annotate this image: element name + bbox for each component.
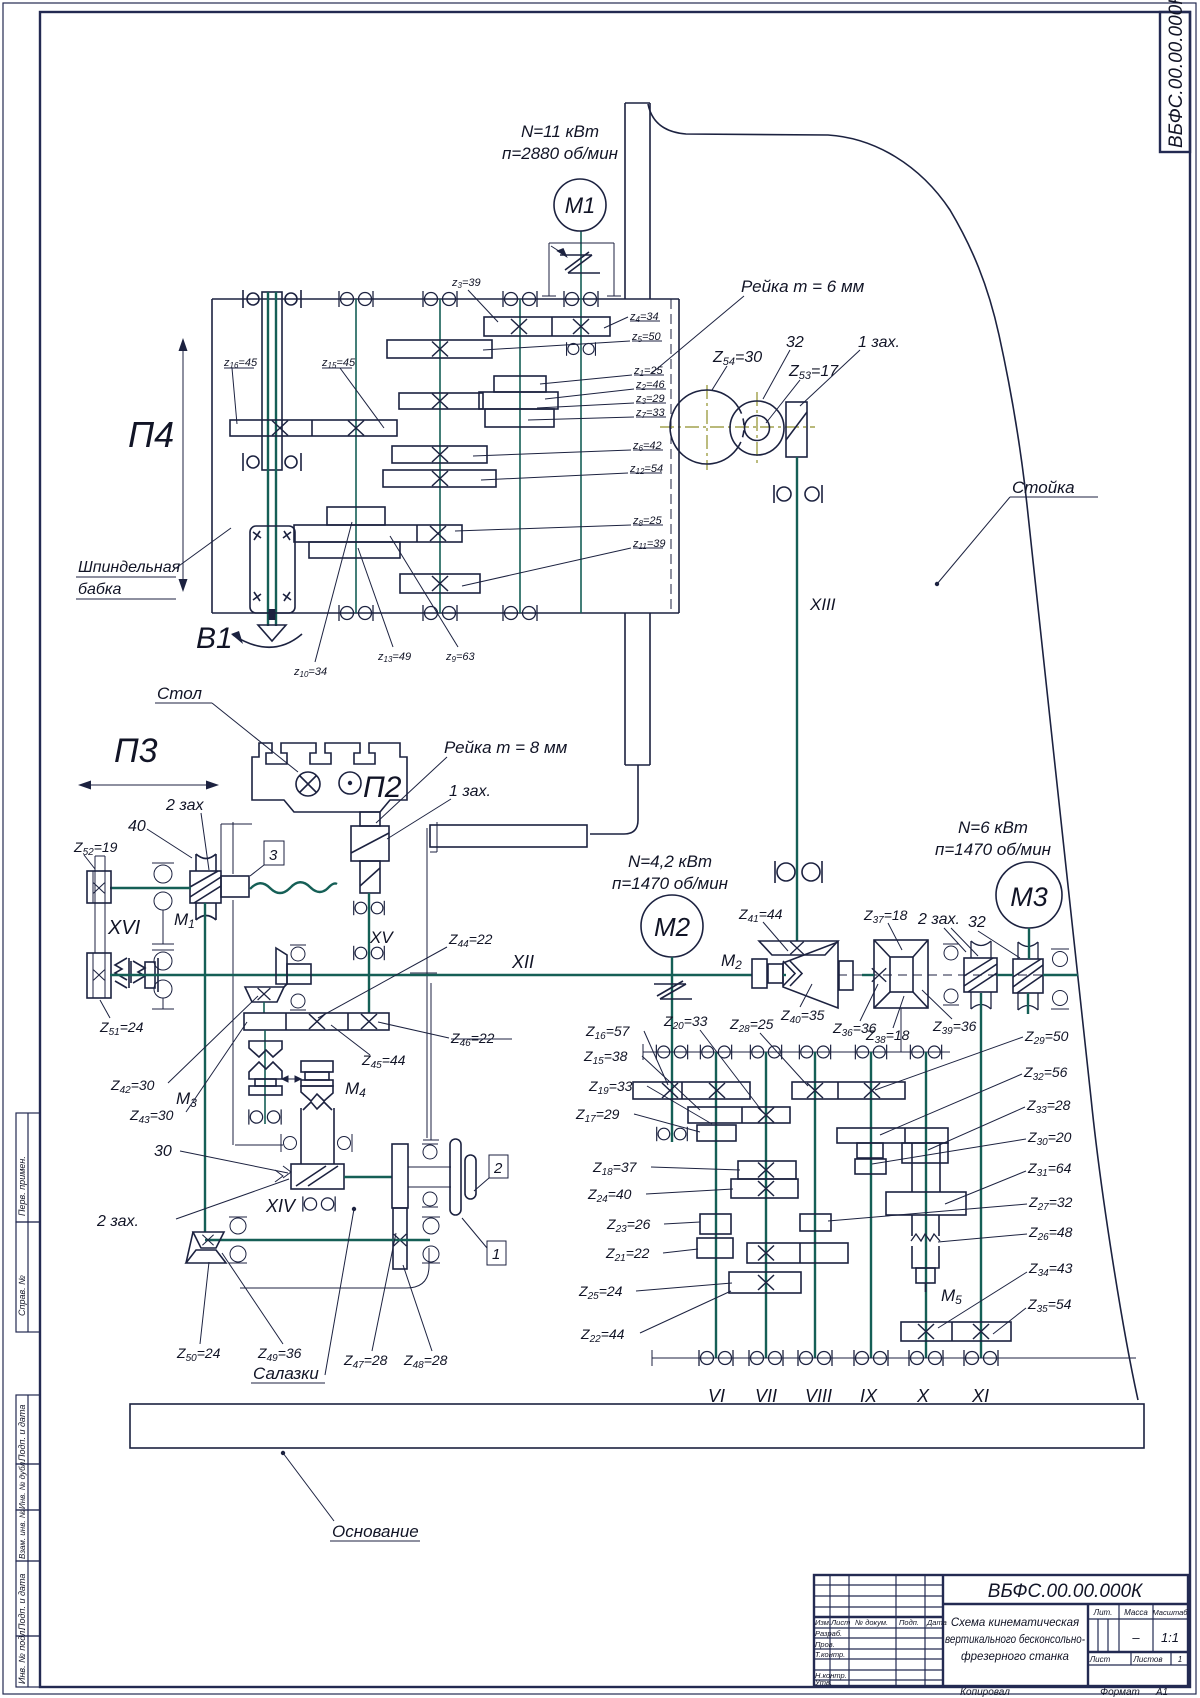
bearing quill top (243, 290, 301, 308)
svg-text:Пров.: Пров. (815, 1640, 835, 1649)
svg-text:2: 2 (493, 1160, 503, 1177)
left margin stamp: Инв. № дубл. (16, 1460, 40, 1510)
gear z21 small (697, 1238, 733, 1258)
svg-text:30: 30 (154, 1143, 172, 1160)
label z1=25 (540, 365, 664, 384)
jaw clutch chevrons M2 (783, 961, 802, 986)
shaft X (925, 1052, 927, 1358)
bearing M2 input end (657, 1127, 688, 1141)
vernier shaft vertical (423, 983, 439, 1140)
B1 rotation arc (231, 631, 302, 647)
bevel frame unit z36-z39 (874, 940, 928, 1008)
bearing before worm (943, 944, 959, 1005)
spindle bottom bearing box (250, 526, 295, 613)
svg-text:Салазки: Салазки (253, 1364, 319, 1383)
gear z23 small (700, 1214, 731, 1234)
column IX-X link (912, 1143, 940, 1192)
label Z44=22 (318, 931, 493, 1018)
label Z49=36 (222, 1253, 302, 1364)
headstock housing box (212, 299, 679, 613)
svg-text:40: 40 (128, 818, 146, 835)
big gear pair z46=45 z45=45 on spindle and I (230, 420, 397, 436)
jaw clutch XII left (115, 958, 158, 992)
svg-text:Лист: Лист (1089, 1655, 1111, 1664)
label Рейка m=8 (376, 738, 568, 823)
bearing shaft IV top (564, 291, 598, 307)
jaw clutch M3 (249, 1041, 282, 1095)
label z7=33 (528, 407, 666, 420)
motor M1 (502, 122, 619, 231)
svg-text:XII: XII (511, 952, 534, 972)
shaft I (356) (355, 299, 357, 613)
svg-text:N=4,2 кВт: N=4,2 кВт (628, 852, 712, 871)
svg-text:VII: VII (755, 1386, 777, 1406)
stub bevel to row (263, 1002, 265, 1013)
gear row z25 wide (747, 1243, 848, 1263)
M1 worm wheel band lower (196, 903, 216, 920)
bearing shaft III top (503, 291, 537, 307)
svg-text:Инв. № подл.: Инв. № подл. (17, 1628, 27, 1684)
svg-text:Листов: Листов (1132, 1655, 1162, 1664)
svg-text:№ докум.: № докум. (855, 1618, 888, 1627)
svg-text:Z53=17: Z53=17 (788, 363, 839, 382)
jaw clutch M4 (301, 1061, 333, 1110)
bottom cluster on I: small top (327, 507, 385, 525)
label Z37=18 (863, 907, 908, 950)
label Z45=44 (331, 1025, 406, 1071)
title block texts (814, 1581, 1188, 1698)
gear z54=30 (670, 390, 744, 464)
horizontal shaft to XVI (110, 887, 191, 889)
label Z30=20 (872, 1129, 1072, 1164)
bearing XV upper (354, 901, 385, 915)
label Стойка (935, 478, 1098, 586)
bearing shaft M3 end (249, 1109, 281, 1124)
coupling right of bevel (839, 961, 853, 990)
top-right designation box (1160, 12, 1190, 152)
left margin stamp: Перв. примен. (16, 1113, 40, 1222)
svg-text:XIV: XIV (265, 1196, 297, 1216)
bearing shaft I bottom (339, 605, 373, 621)
lead screw wavy (250, 882, 337, 893)
label Z17=29 (575, 1106, 700, 1132)
shaft II (440) (439, 299, 441, 613)
label 3 box (250, 841, 284, 876)
svg-text:вертикального бесконсольно-: вертикального бесконсольно- (945, 1634, 1085, 1646)
shaft IX (870, 1052, 872, 1358)
svg-text:Взам. инв. №: Взам. инв. № (18, 1509, 27, 1559)
left margin stamp: Подп. и дата 2 (16, 1561, 40, 1636)
svg-text:Изм.: Изм. (815, 1618, 831, 1627)
centerline rack gears (660, 385, 815, 470)
label 32 rack (763, 334, 804, 399)
label z8=25 (455, 515, 663, 531)
svg-text:фрезерного станка: фрезерного станка (961, 1651, 1069, 1663)
svg-text:Шпиндельная: Шпиндельная (78, 559, 181, 576)
gear z30 small pair (855, 1143, 886, 1174)
shaft dial horizontal (205, 1239, 430, 1241)
svg-text:z1=25: z1=25 (633, 365, 663, 378)
svg-text:Подп. и дата: Подп. и дата (17, 1574, 27, 1630)
label z6=42 (473, 440, 663, 456)
label 1 зах XV (387, 783, 491, 839)
bearing column right (338, 1134, 353, 1152)
label Z23=26 (606, 1216, 700, 1235)
svg-text:Z54=30: Z54=30 (712, 349, 762, 368)
bearing XIII lower (775, 861, 822, 883)
label z3=39 (451, 277, 498, 322)
gear z5=50 on II (387, 340, 492, 358)
label Z29=50 (875, 1028, 1069, 1090)
svg-text:XV: XV (369, 928, 394, 947)
label Z28=25 (729, 1016, 808, 1086)
shaft VII (765, 1052, 767, 1358)
svg-text:Масштаб: Масштаб (1152, 1608, 1188, 1617)
svg-text:Основание: Основание (332, 1522, 419, 1541)
base (основание) (130, 1404, 1144, 1448)
svg-text:П3: П3 (114, 732, 158, 770)
label z54=30 (712, 349, 762, 390)
svg-text:Схема кинематическая: Схема кинематическая (951, 1617, 1079, 1629)
label z5=50 (483, 331, 662, 350)
label Z20=33 (663, 1013, 762, 1111)
svg-text:z11=39: z11=39 (632, 538, 665, 551)
П3 motion arrow (78, 781, 219, 790)
symbol П2 out-of-plane 1 (296, 772, 320, 796)
shaft XII horizontal (110, 974, 752, 976)
svg-text:Рейка m = 8 мм: Рейка m = 8 мм (444, 738, 568, 757)
rack dash line on column (670, 299, 672, 613)
bearing XV lower (354, 946, 385, 960)
gear row z32/z33 (837, 1128, 948, 1143)
gear z51=24 on XVI (87, 953, 111, 998)
handwheel 2 link (408, 1144, 451, 1207)
svg-text:XI: XI (971, 1386, 989, 1406)
shaft XI (980, 993, 982, 1358)
label Z42=30 (110, 996, 258, 1096)
gear row z28/z29 (792, 1082, 905, 1099)
label Z27=32 (828, 1194, 1073, 1221)
label Z26=48 (938, 1224, 1073, 1243)
gear row z43/z44/z46 (244, 1013, 389, 1030)
dial gear z47=28 (392, 1144, 408, 1208)
shaft VI (715, 1052, 717, 1358)
svg-text:1 зах.: 1 зах. (449, 783, 491, 800)
gear z18=37 (738, 1161, 796, 1179)
triple gear cluster on IV (479, 376, 558, 427)
label z2=46 (545, 379, 666, 399)
worm z-2зах (left) (964, 941, 997, 1009)
svg-text:М3: М3 (1010, 882, 1048, 912)
label z12=54 (481, 463, 663, 480)
svg-text:z9=63: z9=63 (445, 651, 475, 664)
XII coupling rects (752, 959, 783, 988)
bevel z50/z49 at screw bottom (186, 1232, 226, 1263)
gear row z15/z19 (688, 1107, 790, 1123)
gear block z3=39 / z4=34 on III-IV (484, 317, 610, 336)
label z13=49 (358, 548, 411, 664)
svg-text:ВБФС.00.00.000К: ВБФС.00.00.000К (1166, 0, 1187, 148)
gear 32 wheel (730, 401, 784, 455)
left margin stamp: Инв. № подл. (16, 1628, 40, 1687)
svg-text:2 зах.: 2 зах. (917, 911, 960, 928)
sled left wall (221, 822, 252, 1145)
label Z40=35 (780, 984, 825, 1026)
bearing quill mid (243, 453, 301, 471)
flexible coupling M1 (551, 246, 600, 273)
bearing column left (281, 1134, 297, 1152)
symbol П2 out-of-plane 2 (339, 772, 361, 794)
svg-text:Стол: Стол (157, 684, 202, 703)
column to worm XIV (301, 1108, 334, 1164)
gear z53=17 hub (745, 416, 770, 441)
svg-text:ВБФС.00.00.000К: ВБФС.00.00.000К (988, 1581, 1144, 1602)
svg-text:3: 3 (269, 847, 278, 864)
bevel z40=35 (783, 942, 838, 1008)
gear z=46 on II (399, 393, 483, 409)
clutch-brake M1 bracket (542, 243, 621, 296)
gear z12=54 on II (383, 470, 496, 487)
column (стойка) outline curve (648, 104, 1138, 1400)
spindle quill (262, 292, 282, 470)
label z11=39 (462, 538, 665, 586)
tie line housing (235, 1144, 283, 1146)
flexible coupling M2 (654, 981, 692, 999)
svg-text:п=2880 об/мин: п=2880 об/мин (502, 144, 619, 163)
title block grid (814, 1575, 1188, 1686)
bearing shaft III bottom (503, 605, 537, 621)
svg-text:z6=42: z6=42 (632, 440, 662, 453)
svg-text:IX: IX (860, 1386, 878, 1406)
gear z6=42 on II (392, 446, 487, 463)
svg-text:А1: А1 (1155, 1687, 1168, 1698)
svg-text:–: – (1131, 1630, 1140, 1645)
left margin stamp: Справ. № (16, 1222, 40, 1332)
svg-text:Инв. № дубл.: Инв. № дубл. (18, 1460, 27, 1509)
bearing stand lower pair (152, 950, 174, 1009)
bearing shaft II bottom (423, 605, 457, 621)
shifter link M3-M4 (282, 1076, 301, 1082)
svg-text:z7=33: z7=33 (635, 407, 665, 420)
label Z24=40 (587, 1186, 733, 1205)
svg-text:П2: П2 (363, 771, 402, 804)
svg-text:z10=34: z10=34 (293, 666, 327, 679)
shaft XV (368, 893, 370, 1013)
bearing shaft II top (423, 291, 457, 307)
gear z24=40 (731, 1179, 798, 1198)
bevel bearings (290, 945, 306, 1010)
П4 motion arrow (179, 338, 188, 592)
gear row z34/z35 (901, 1322, 1011, 1341)
label 2 зах XIV (96, 1179, 289, 1230)
svg-text:z8=25: z8=25 (632, 515, 662, 528)
bearing under XIV clutch (303, 1196, 335, 1211)
svg-text:Копировал: Копировал (960, 1687, 1010, 1698)
svg-text:1:1: 1:1 (1161, 1630, 1179, 1645)
svg-text:п=1470 об/мин: п=1470 об/мин (612, 874, 729, 893)
svg-text:32: 32 (968, 914, 986, 931)
svg-text:XIII: XIII (809, 595, 836, 614)
svg-text:z4=34: z4=34 (629, 311, 659, 324)
svg-text:М1: М1 (565, 193, 596, 218)
shaft XIV (344, 1176, 392, 1178)
bearing shaft I top (339, 291, 373, 307)
label Z47=28 (343, 1233, 396, 1371)
label Z18=37 (592, 1159, 740, 1178)
spindle nose triangle (258, 609, 286, 641)
svg-text:В1: В1 (196, 622, 233, 655)
svg-text:N=11 кВт: N=11 кВт (521, 122, 599, 141)
worm pinion XV (1 зах.) (351, 826, 389, 893)
label Салазки (251, 1207, 356, 1383)
svg-text:Масса: Масса (1124, 1608, 1148, 1617)
svg-text:32: 32 (786, 334, 804, 351)
label z45=45 (321, 357, 384, 428)
label Z52=19 (73, 839, 118, 869)
label Z31=64 (945, 1160, 1072, 1204)
lead screw vertical shaft (204, 903, 206, 1232)
svg-text:VI: VI (708, 1386, 725, 1406)
bottom cluster wide with z8 (294, 525, 462, 542)
shaft M3 vertical (265) (264, 1030, 266, 1124)
svg-text:z2=46: z2=46 (635, 379, 665, 392)
svg-text:2 зах.: 2 зах. (96, 1213, 139, 1230)
label Основание (281, 1451, 420, 1541)
worm 32 (right, M3 input) (1013, 942, 1043, 1010)
label z53=17 (766, 363, 839, 423)
svg-text:П4: П4 (128, 414, 174, 455)
top bearings shafts (656, 1045, 687, 1060)
sled housing rounded corner (240, 1248, 429, 1288)
shaft VIII (814, 1052, 816, 1358)
label z4=34 (604, 311, 660, 328)
label Z34=43 (938, 1260, 1073, 1328)
label 30 (154, 1143, 288, 1173)
gear z22=44 (729, 1272, 801, 1293)
handwheel 2 (450, 1139, 476, 1215)
label Шпиндельная бабка (76, 528, 231, 599)
svg-text:п=1470 об/мин: п=1470 об/мин (935, 840, 1052, 859)
top bearing wall line (643, 1044, 950, 1060)
svg-text:Рейка m = 6 мм: Рейка m = 6 мм (741, 277, 865, 296)
gear row z16/z20 (633, 1082, 750, 1099)
label Z41=44 (738, 906, 788, 951)
label 40 (128, 818, 192, 858)
label Z43=30 (129, 1022, 247, 1126)
label Z46=22 (378, 1022, 512, 1049)
svg-text:Дата: Дата (926, 1618, 947, 1627)
gear z52=19 on XVI (87, 871, 111, 903)
label Z15=38 (583, 1048, 700, 1110)
X on frame unit (872, 968, 886, 982)
table rack stub (360, 812, 380, 826)
motor M3 (935, 818, 1062, 928)
svg-text:z3=29: z3=29 (635, 393, 665, 406)
bottom bearing wall line (652, 1350, 1136, 1366)
worm safety clutch XIV (30 / 2 зах.) (275, 1164, 344, 1189)
gear z27 small (800, 1214, 831, 1231)
rack bar m=8 (430, 825, 587, 847)
svg-text:XVI: XVI (107, 917, 141, 939)
label 1 box (462, 1218, 506, 1265)
gear z17 small (697, 1125, 736, 1141)
label Стол (155, 684, 298, 772)
label Z38=18 (865, 996, 910, 1046)
label Z16=57 (585, 1023, 668, 1085)
svg-text:Т.контр.: Т.контр. (815, 1650, 845, 1659)
left margin stamp: Подп. и дата (16, 1395, 40, 1464)
bevel z41=44 on XIII (759, 941, 838, 955)
label Z39=36 (922, 990, 977, 1037)
svg-text:z3=39: z3=39 (451, 277, 481, 290)
shaft XIII (796, 457, 798, 941)
spindle shaft (268, 292, 276, 626)
label 2 box (474, 1155, 508, 1191)
svg-text:2 зах: 2 зах (165, 797, 205, 814)
svg-text:Справ. №: Справ. № (17, 1275, 27, 1316)
teal shaft segments XII right (783, 974, 1078, 976)
shaft M3 (1028, 928, 1030, 959)
gear z11=39 on II (400, 574, 480, 593)
label Z19=33 (588, 1078, 712, 1124)
motor M2 (612, 852, 729, 957)
label z3=29 (537, 393, 666, 408)
dashed centerline XII right (838, 974, 1078, 976)
bearing stand upper pair (152, 863, 174, 944)
bevel X (202, 1235, 213, 1246)
svg-text:1: 1 (492, 1246, 500, 1263)
svg-text:Перв. примен.: Перв. примен. (17, 1156, 27, 1216)
svg-text:Подп. и дата: Подп. и дата (17, 1405, 27, 1461)
bearing shaft IV under G1 (567, 342, 596, 356)
M1 worm wheel band upper (196, 854, 216, 871)
label 2 зах worm (917, 911, 978, 956)
svg-text:VIII: VIII (805, 1386, 832, 1406)
svg-text:М2: М2 (654, 912, 691, 942)
label 2 зах M1 (165, 797, 209, 870)
label 1 зах rack (800, 334, 900, 406)
M5 safety clutch (911, 1215, 940, 1292)
shaft XVI (95, 856, 105, 953)
bearing XIII upper (774, 485, 822, 503)
label Z36=36 (832, 984, 878, 1039)
table (стол) with T-slots (252, 743, 407, 812)
svg-text:бабка: бабка (78, 581, 121, 598)
label Z21=22 (605, 1245, 698, 1264)
label z9=63 (390, 536, 475, 664)
end bearings right (1051, 949, 1069, 1009)
bottom cluster lower (309, 542, 400, 558)
M1 safety clutch worm (40/2зах) (190, 871, 221, 903)
stub under frame unit (900, 1008, 902, 1052)
label z46=45 (223, 357, 258, 424)
left margin stamp: Взам. инв. № (16, 1509, 40, 1561)
label Z51=24 (99, 1000, 144, 1038)
dial gear z48=28 (393, 1208, 407, 1269)
svg-text:Лист: Лист (830, 1618, 850, 1627)
bearing dial left (229, 1217, 247, 1263)
label Z25=24 (578, 1283, 732, 1302)
svg-text:Подп.: Подп. (899, 1618, 919, 1627)
label 32 worm (968, 914, 1020, 958)
roman shaft labels (708, 1386, 989, 1406)
label Z22=44 (580, 1291, 731, 1345)
label Z32=56 (880, 1064, 1068, 1135)
svg-text:Утв.: Утв. (814, 1678, 832, 1687)
bevel pair on XII at 290 (245, 948, 311, 1002)
label Рейка m=6 (652, 277, 865, 373)
gear z31=64 wide (886, 1192, 966, 1215)
